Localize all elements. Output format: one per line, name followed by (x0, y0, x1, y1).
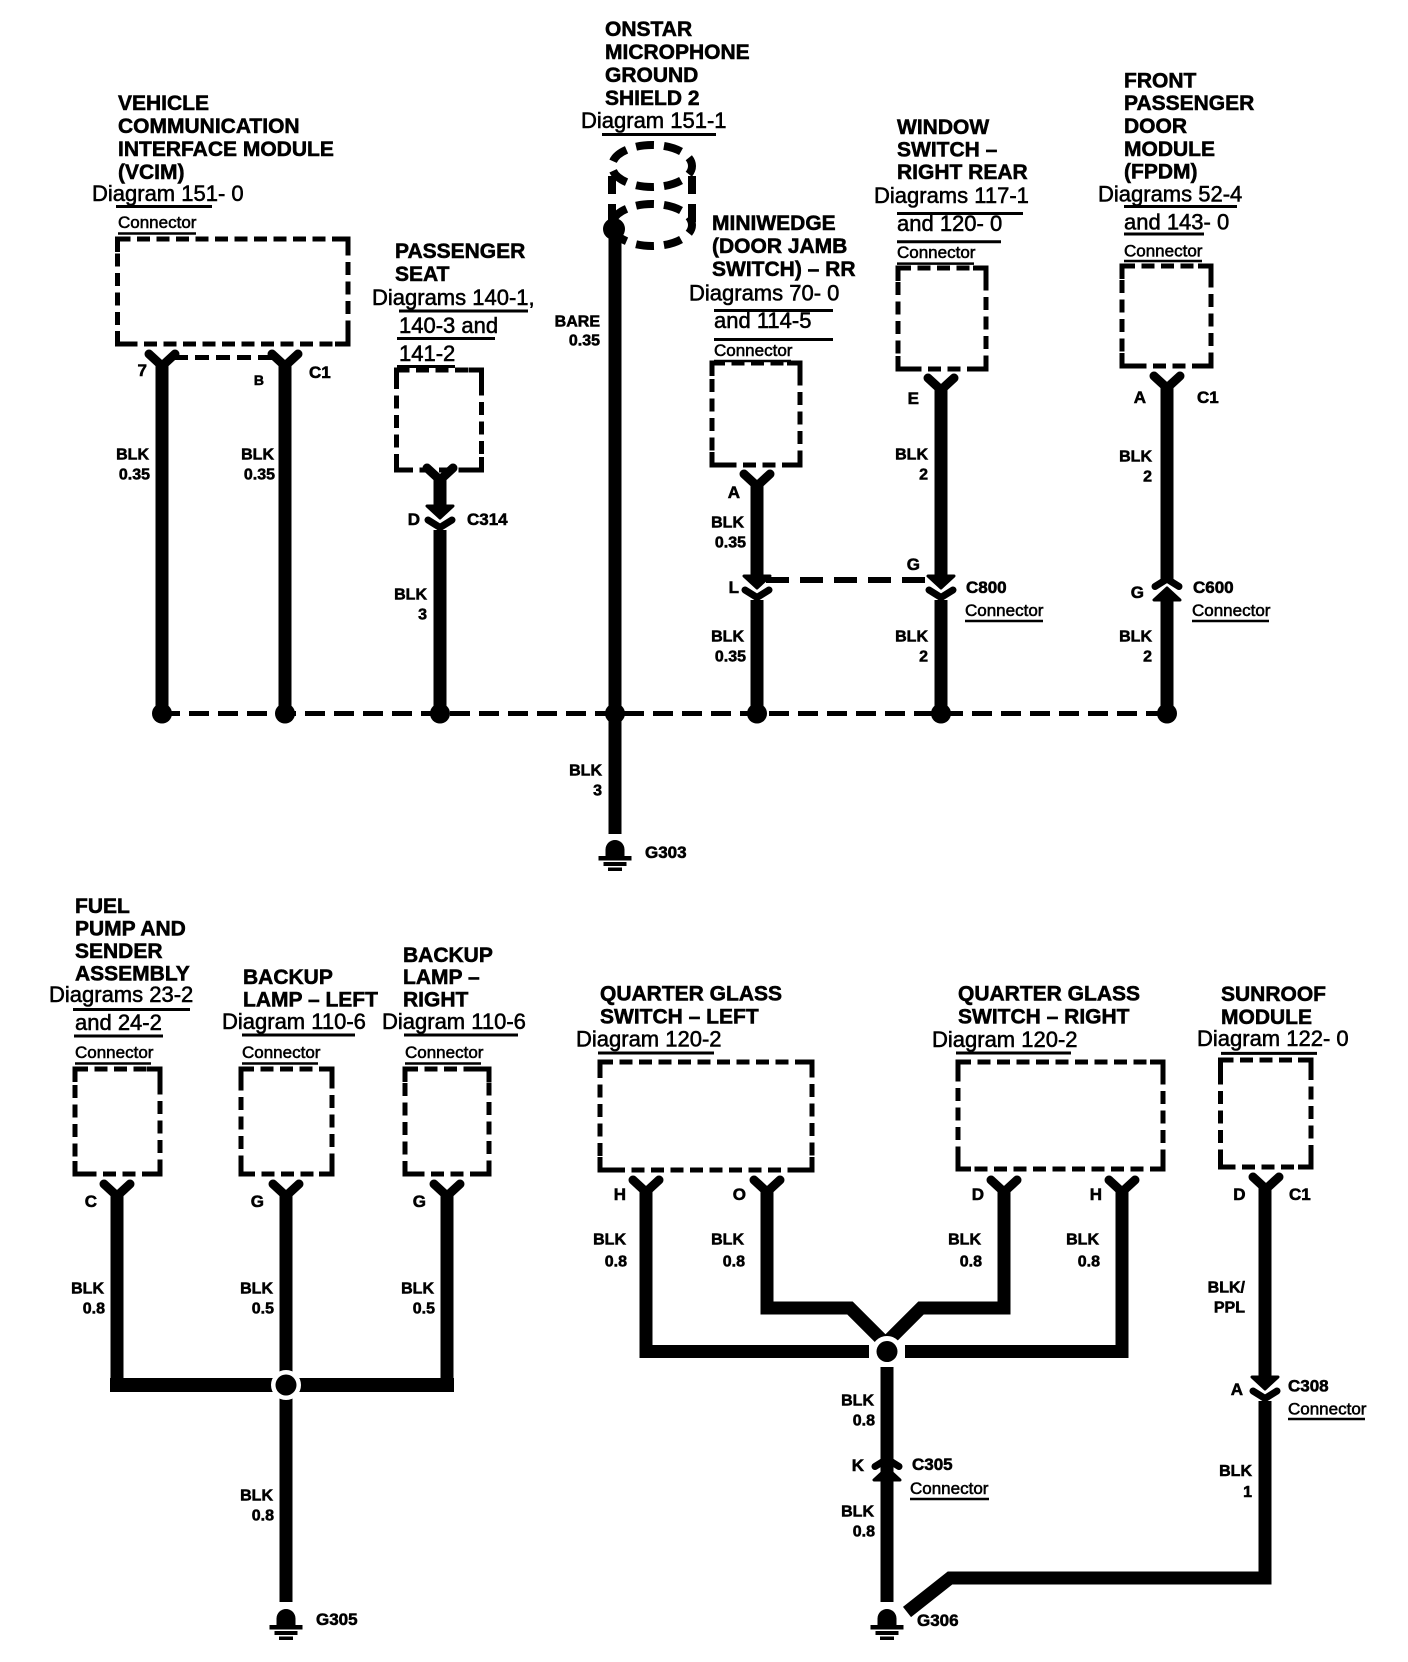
svg-text:C305: C305 (912, 1455, 953, 1474)
svg-text:Diagrams 70- 0: Diagrams 70- 0 (689, 281, 839, 306)
svg-text:INTERFACE MODULE: INTERFACE MODULE (118, 138, 334, 161)
svg-text:and 143- 0: and 143- 0 (1124, 210, 1229, 235)
svg-text:BLK: BLK (593, 1232, 626, 1249)
svg-text:Connector: Connector (405, 1043, 484, 1062)
svg-text:and 24-2: and 24-2 (75, 1010, 162, 1035)
svg-text:Connector: Connector (118, 213, 197, 232)
svg-text:BLK: BLK (569, 763, 602, 780)
svg-text:2: 2 (919, 649, 928, 666)
svg-text:Diagram 110-6: Diagram 110-6 (222, 1009, 366, 1034)
svg-text:MICROPHONE: MICROPHONE (605, 41, 750, 64)
svg-text:0.5: 0.5 (252, 1301, 274, 1318)
svg-text:0.8: 0.8 (1078, 1254, 1100, 1271)
svg-text:BLK: BLK (240, 1488, 273, 1505)
svg-text:Connector: Connector (1124, 241, 1203, 260)
svg-text:D: D (1233, 1185, 1245, 1204)
svg-text:PUMP AND: PUMP AND (75, 918, 186, 941)
svg-text:Diagram 120-2: Diagram 120-2 (576, 1027, 722, 1052)
svg-text:0.35: 0.35 (244, 467, 275, 484)
svg-text:D: D (408, 510, 420, 529)
svg-text:1: 1 (1243, 1484, 1252, 1501)
svg-text:0.5: 0.5 (413, 1301, 435, 1318)
svg-text:BACKUP: BACKUP (403, 944, 493, 967)
svg-text:Diagram 151-1: Diagram 151-1 (581, 108, 727, 133)
svg-text:LAMP –: LAMP – (403, 966, 480, 989)
svg-text:0.8: 0.8 (252, 1508, 274, 1525)
svg-text:SWITCH) – RR: SWITCH) – RR (712, 258, 856, 281)
svg-text:Diagram 122- 0: Diagram 122- 0 (1197, 1026, 1349, 1051)
svg-text:BLK: BLK (1066, 1232, 1099, 1249)
svg-text:SENDER: SENDER (75, 940, 163, 963)
svg-text:C600: C600 (1193, 578, 1234, 597)
svg-text:WINDOW: WINDOW (897, 116, 989, 139)
svg-text:BARE: BARE (555, 314, 601, 331)
svg-text:Connector: Connector (910, 1479, 989, 1498)
svg-text:BLK: BLK (394, 587, 427, 604)
svg-text:Connector: Connector (714, 341, 793, 360)
svg-text:H: H (614, 1185, 626, 1204)
svg-text:3: 3 (418, 607, 427, 624)
svg-text:BLK: BLK (895, 629, 928, 646)
svg-text:2: 2 (1143, 649, 1152, 666)
svg-text:Diagram 110-6: Diagram 110-6 (382, 1009, 526, 1034)
svg-text:C800: C800 (966, 578, 1007, 597)
svg-text:Connector: Connector (897, 243, 976, 262)
svg-text:Diagrams 52-4: Diagrams 52-4 (1098, 182, 1242, 207)
svg-text:SHIELD 2: SHIELD 2 (605, 87, 700, 110)
svg-text:H: H (1090, 1185, 1102, 1204)
svg-text:GROUND: GROUND (605, 64, 698, 87)
svg-text:C1: C1 (309, 363, 331, 382)
svg-text:SEAT: SEAT (395, 263, 450, 286)
svg-text:141-2: 141-2 (399, 341, 455, 366)
svg-text:BLK: BLK (841, 1504, 874, 1521)
svg-text:C308: C308 (1288, 1377, 1329, 1396)
svg-text:C: C (85, 1192, 97, 1211)
svg-text:L: L (729, 578, 739, 597)
svg-text:COMMUNICATION: COMMUNICATION (118, 115, 300, 138)
svg-text:Connector: Connector (1192, 601, 1271, 620)
svg-text:QUARTER GLASS: QUARTER GLASS (600, 983, 782, 1006)
svg-text:3: 3 (593, 783, 602, 800)
svg-text:E: E (908, 389, 919, 408)
svg-text:C314: C314 (467, 510, 508, 529)
svg-text:VEHICLE: VEHICLE (118, 92, 209, 115)
svg-text:SWITCH – LEFT: SWITCH – LEFT (600, 1006, 759, 1029)
svg-text:C1: C1 (1289, 1185, 1311, 1204)
svg-text:Diagrams 140-1,: Diagrams 140-1, (372, 285, 535, 310)
svg-text:Diagram 120-2: Diagram 120-2 (932, 1027, 1078, 1052)
svg-text:BLK: BLK (841, 1393, 874, 1410)
svg-text:BLK: BLK (895, 447, 928, 464)
svg-text:Connector: Connector (1288, 1399, 1367, 1418)
svg-text:0.8: 0.8 (605, 1254, 627, 1271)
svg-text:and 120- 0: and 120- 0 (897, 211, 1002, 236)
svg-text:Diagram 151- 0: Diagram 151- 0 (92, 181, 244, 206)
svg-text:BLK: BLK (711, 515, 744, 532)
svg-text:0.35: 0.35 (119, 467, 150, 484)
svg-text:D: D (972, 1185, 984, 1204)
svg-text:QUARTER GLASS: QUARTER GLASS (958, 983, 1140, 1006)
svg-text:2: 2 (1143, 469, 1152, 486)
svg-text:Diagrams 23-2: Diagrams 23-2 (49, 982, 193, 1007)
svg-text:Diagrams 117-1: Diagrams 117-1 (874, 183, 1029, 208)
svg-text:SWITCH –: SWITCH – (897, 139, 998, 162)
svg-text:G306: G306 (917, 1611, 959, 1630)
svg-text:MODULE: MODULE (1124, 138, 1215, 161)
svg-text:0.8: 0.8 (960, 1254, 982, 1271)
svg-text:G303: G303 (645, 843, 687, 862)
svg-text:BLK: BLK (71, 1281, 104, 1298)
svg-text:RIGHT REAR: RIGHT REAR (897, 161, 1028, 184)
svg-text:(FPDM): (FPDM) (1124, 161, 1197, 184)
svg-text:A: A (1134, 388, 1146, 407)
svg-text:BLK: BLK (1119, 629, 1152, 646)
svg-text:B: B (254, 372, 264, 388)
svg-text:A: A (728, 483, 740, 502)
svg-text:and 114-5: and 114-5 (714, 308, 811, 333)
svg-text:BLK: BLK (711, 1232, 744, 1249)
svg-text:PASSENGER: PASSENGER (395, 240, 525, 263)
svg-text:BLK: BLK (401, 1281, 434, 1298)
svg-text:BACKUP: BACKUP (243, 966, 333, 989)
svg-text:PPL: PPL (1214, 1300, 1245, 1317)
svg-text:BLK/: BLK/ (1208, 1280, 1246, 1297)
svg-text:Connector: Connector (75, 1043, 154, 1062)
svg-text:DOOR: DOOR (1124, 115, 1187, 138)
svg-text:FRONT: FRONT (1124, 70, 1196, 93)
svg-text:G: G (251, 1192, 264, 1211)
svg-text:0.35: 0.35 (715, 649, 746, 666)
svg-text:O: O (733, 1185, 746, 1204)
svg-text:BLK: BLK (948, 1232, 981, 1249)
svg-text:(DOOR JAMB: (DOOR JAMB (712, 235, 847, 258)
svg-text:G: G (413, 1192, 426, 1211)
svg-text:7: 7 (138, 361, 147, 380)
svg-text:BLK: BLK (711, 629, 744, 646)
svg-text:0.35: 0.35 (569, 333, 600, 350)
svg-text:G: G (1131, 583, 1144, 602)
svg-text:A: A (1231, 1380, 1243, 1399)
svg-text:0.8: 0.8 (723, 1254, 745, 1271)
svg-text:MINIWEDGE: MINIWEDGE (712, 212, 836, 235)
svg-text:BLK: BLK (1219, 1463, 1252, 1480)
svg-text:0.8: 0.8 (853, 1413, 875, 1430)
svg-text:Connector: Connector (242, 1043, 321, 1062)
svg-text:SUNROOF: SUNROOF (1221, 983, 1326, 1006)
svg-text:SWITCH – RIGHT: SWITCH – RIGHT (958, 1006, 1130, 1029)
svg-text:G: G (907, 555, 920, 574)
svg-text:0.8: 0.8 (853, 1524, 875, 1541)
svg-text:BLK: BLK (240, 1281, 273, 1298)
svg-text:BLK: BLK (241, 447, 274, 464)
svg-text:0.8: 0.8 (83, 1301, 105, 1318)
svg-text:K: K (852, 1456, 865, 1475)
svg-text:BLK: BLK (1119, 449, 1152, 466)
svg-text:2: 2 (919, 467, 928, 484)
svg-text:0.35: 0.35 (715, 535, 746, 552)
svg-text:C1: C1 (1197, 388, 1219, 407)
svg-text:FUEL: FUEL (75, 895, 130, 918)
svg-text:Connector: Connector (965, 601, 1044, 620)
svg-text:BLK: BLK (116, 447, 149, 464)
svg-text:PASSENGER: PASSENGER (1124, 92, 1254, 115)
svg-text:ONSTAR: ONSTAR (605, 18, 692, 41)
svg-text:G305: G305 (316, 1610, 358, 1629)
svg-text:140-3 and: 140-3 and (399, 313, 498, 338)
